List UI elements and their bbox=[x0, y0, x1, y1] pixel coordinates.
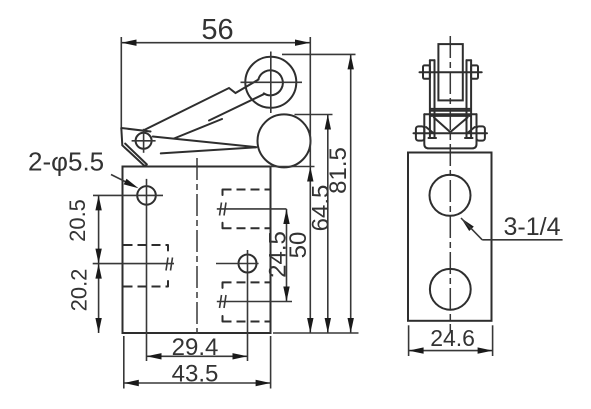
right bottom port hidden lines bbox=[217, 282, 292, 321]
dim 20.5 / 20.2 bbox=[65, 195, 102, 333]
bracket plate bbox=[424, 114, 476, 148]
body vertical centerline bbox=[196, 158, 198, 338]
left port hidden lines bbox=[93, 245, 174, 287]
dim 56 bbox=[121, 14, 310, 167]
centerline bbox=[449, 36, 451, 332]
dim 24.6 bbox=[409, 325, 493, 356]
plunger ball bbox=[258, 114, 311, 167]
svg-text:24.5: 24.5 bbox=[265, 231, 292, 278]
roller wheel bbox=[241, 52, 303, 114]
label 3-1/4 leader bbox=[461, 213, 563, 241]
valve body outline bbox=[123, 167, 271, 334]
valve body side view bbox=[408, 153, 492, 321]
svg-text:2-φ5.5: 2-φ5.5 bbox=[28, 147, 104, 177]
port circle top bbox=[430, 175, 471, 216]
svg-text:56: 56 bbox=[201, 14, 233, 46]
lever arm bbox=[145, 80, 265, 154]
dim 64.5 bbox=[295, 115, 335, 334]
pivot crosshair bbox=[132, 129, 156, 153]
dim 29.4 bbox=[147, 334, 248, 361]
dim 43.5 bbox=[124, 336, 271, 389]
axle bolt bbox=[420, 65, 482, 78]
fork crossbar bbox=[431, 109, 471, 111]
top edge extension for 50 dim bbox=[270, 166, 315, 168]
svg-text:29.4: 29.4 bbox=[172, 334, 219, 361]
dim 24.5 bbox=[265, 209, 292, 302]
svg-text:43.5: 43.5 bbox=[172, 361, 219, 388]
lower bolt bbox=[414, 126, 488, 140]
fork arms bbox=[429, 60, 473, 138]
bracket diagonals bbox=[426, 118, 475, 134]
svg-text:64.5: 64.5 bbox=[308, 185, 335, 232]
dim 81.5 bbox=[282, 54, 356, 333]
port circle bottom bbox=[430, 269, 471, 310]
svg-text:20.2: 20.2 bbox=[67, 269, 92, 312]
dim 50 bbox=[285, 167, 314, 334]
mounting hole top-left (2-phi5.5) bbox=[93, 179, 163, 361]
right top port hidden lines bbox=[217, 190, 287, 229]
roller front rect bbox=[438, 44, 462, 100]
label 2-phi5.5 bbox=[28, 147, 139, 189]
svg-text:24.6: 24.6 bbox=[430, 325, 475, 351]
svg-text:20.5: 20.5 bbox=[65, 199, 90, 242]
bottom edge extension for right dims bbox=[273, 332, 359, 334]
pivot bracket bbox=[121, 128, 150, 167]
svg-text:3-1/4: 3-1/4 bbox=[504, 213, 561, 241]
mounting hole center (2-phi5.5) bbox=[216, 250, 259, 361]
